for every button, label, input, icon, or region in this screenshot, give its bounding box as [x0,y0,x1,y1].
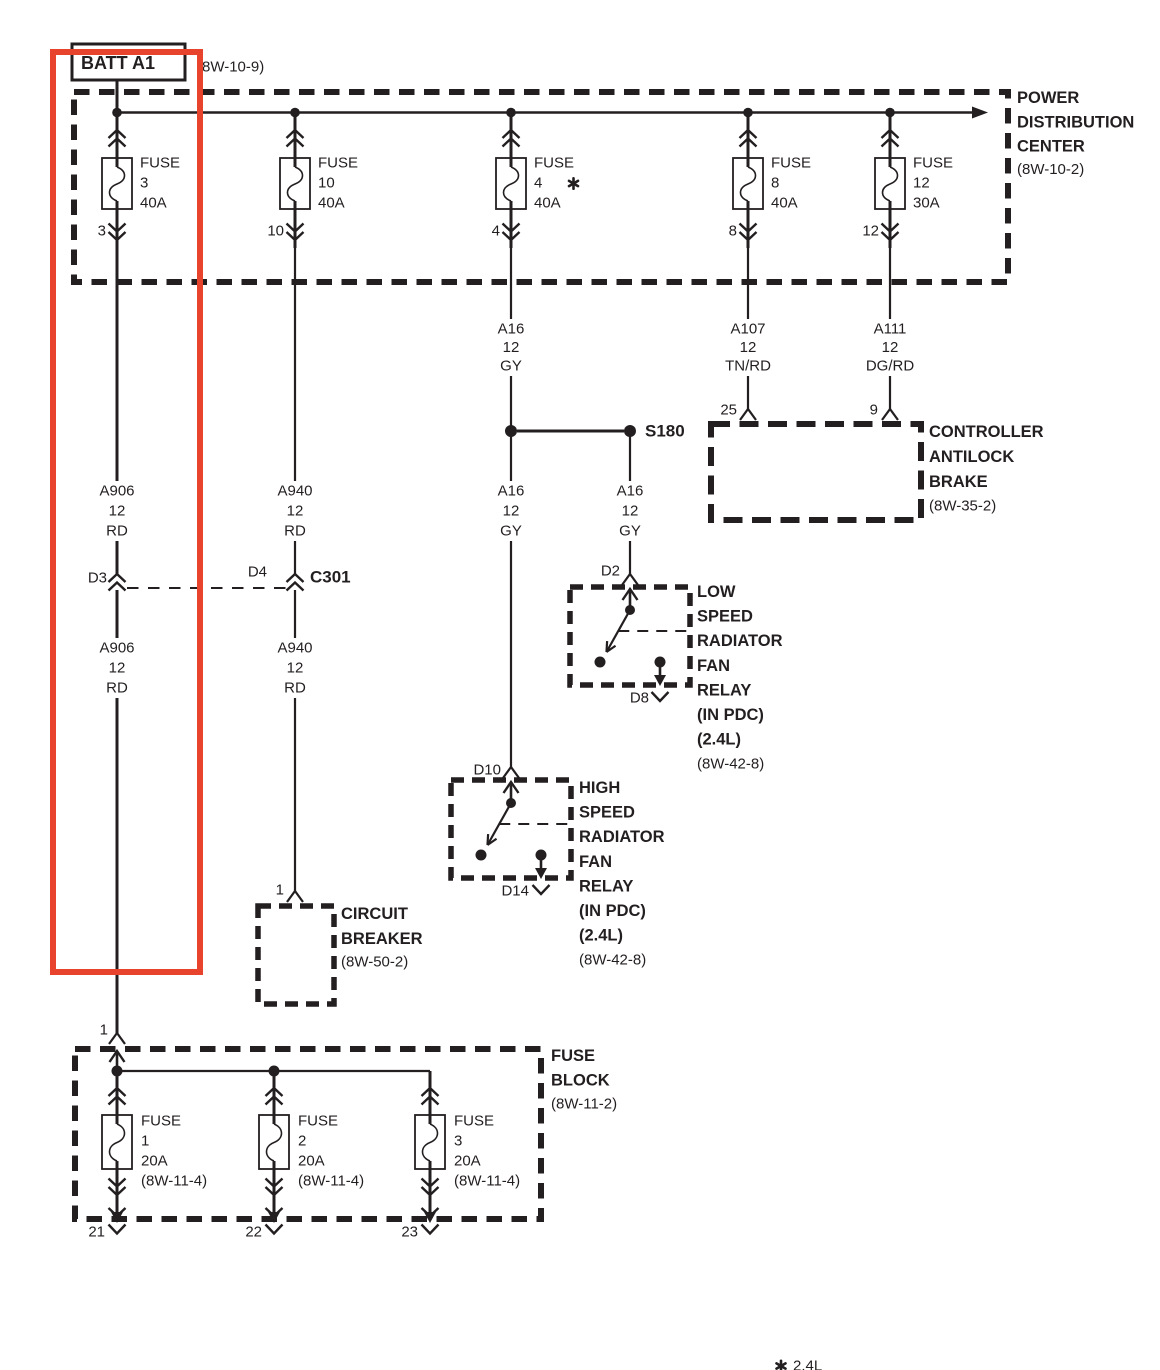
svg-text:RD: RD [284,680,306,697]
svg-text:FUSE: FUSE [141,1113,181,1130]
svg-text:(IN PDC): (IN PDC) [579,902,646,920]
svg-text:4: 4 [534,175,542,192]
svg-text:3: 3 [140,175,148,192]
svg-text:D14: D14 [501,883,529,900]
svg-text:LOW: LOW [697,583,736,601]
svg-text:(8W-10-9): (8W-10-9) [197,59,264,76]
svg-text:A940: A940 [277,483,312,500]
svg-text:12: 12 [740,339,757,356]
svg-text:DISTRIBUTION: DISTRIBUTION [1017,114,1134,132]
svg-text:FAN: FAN [579,853,612,871]
svg-text:(2.4L): (2.4L) [579,927,623,945]
svg-text:RELAY: RELAY [697,681,751,699]
svg-text:HIGH: HIGH [579,779,620,797]
svg-text:(8W-11-4): (8W-11-4) [454,1173,520,1190]
svg-text:12: 12 [862,223,879,240]
svg-text:(8W-10-2): (8W-10-2) [1017,161,1084,178]
svg-text:(2.4L): (2.4L) [697,731,741,749]
svg-text:FAN: FAN [697,657,730,675]
svg-text:8: 8 [771,175,779,192]
svg-text:3: 3 [454,1133,462,1150]
svg-text:(8W-42-8): (8W-42-8) [697,756,764,773]
svg-text:CIRCUIT: CIRCUIT [341,905,408,923]
svg-text:30A: 30A [913,195,940,212]
svg-text:BREAKER: BREAKER [341,930,423,948]
svg-text:8: 8 [729,223,737,240]
svg-text:FUSE: FUSE [913,155,953,172]
svg-text:SPEED: SPEED [697,608,753,626]
svg-text:12: 12 [287,503,304,520]
svg-text:(8W-11-4): (8W-11-4) [141,1173,207,1190]
svg-text:GY: GY [500,523,522,540]
svg-text:12: 12 [622,503,639,520]
svg-text:CONTROLLER: CONTROLLER [929,423,1044,441]
svg-text:FUSE: FUSE [454,1113,494,1130]
svg-text:(8W-11-4): (8W-11-4) [298,1173,364,1190]
svg-text:GY: GY [619,523,641,540]
svg-text:BLOCK: BLOCK [551,1072,610,1090]
svg-text:D8: D8 [630,690,649,707]
svg-text:1: 1 [100,1022,108,1039]
svg-text:9: 9 [870,402,878,419]
svg-text:ANTILOCK: ANTILOCK [929,448,1014,466]
svg-text:FUSE: FUSE [534,155,574,172]
svg-text:22: 22 [245,1224,262,1241]
svg-text:D10: D10 [473,762,501,779]
svg-text:FUSE: FUSE [298,1113,338,1130]
svg-text:RD: RD [106,680,128,697]
svg-text:20A: 20A [298,1153,325,1170]
svg-text:2: 2 [298,1133,306,1150]
svg-text:RADIATOR: RADIATOR [697,632,783,650]
svg-text:(8W-50-2): (8W-50-2) [341,954,408,971]
svg-text:40A: 40A [318,195,345,212]
svg-text:C301: C301 [310,568,351,587]
svg-text:(8W-11-2): (8W-11-2) [551,1096,617,1113]
svg-text:4: 4 [492,223,500,240]
svg-text:FUSE: FUSE [140,155,180,172]
svg-text:D2: D2 [601,563,620,580]
svg-text:A16: A16 [498,321,525,338]
svg-text:TN/RD: TN/RD [725,358,771,375]
svg-text:23: 23 [401,1224,418,1241]
svg-text:FUSE: FUSE [771,155,811,172]
svg-text:A906: A906 [99,640,134,657]
svg-text:A906: A906 [99,483,134,500]
svg-text:40A: 40A [534,195,561,212]
svg-text:20A: 20A [141,1153,168,1170]
svg-text:10: 10 [318,175,335,192]
svg-text:12: 12 [503,503,520,520]
svg-text:12: 12 [913,175,930,192]
svg-text:(IN PDC): (IN PDC) [697,706,764,724]
svg-text:BRAKE: BRAKE [929,473,988,491]
svg-text:CENTER: CENTER [1017,138,1085,156]
svg-text:2.4L: 2.4L [793,1358,822,1370]
svg-text:SPEED: SPEED [579,804,635,822]
svg-text:40A: 40A [771,195,798,212]
svg-text:A16: A16 [498,483,525,500]
svg-text:A111: A111 [874,321,907,338]
svg-text:FUSE: FUSE [318,155,358,172]
svg-text:12: 12 [503,339,520,356]
svg-text:(8W-35-2): (8W-35-2) [929,498,996,515]
svg-text:3: 3 [98,223,106,240]
svg-text:RD: RD [284,523,306,540]
svg-text:D3: D3 [88,570,107,587]
svg-text:1: 1 [141,1133,149,1150]
svg-text:POWER: POWER [1017,89,1079,107]
svg-text:RELAY: RELAY [579,877,633,895]
svg-text:FUSE: FUSE [551,1047,595,1065]
svg-text:(8W-42-8): (8W-42-8) [579,952,646,969]
svg-text:1: 1 [276,882,284,899]
svg-text:A940: A940 [277,640,312,657]
svg-text:DG/RD: DG/RD [866,358,915,375]
svg-text:S180: S180 [645,422,685,441]
svg-text:BATT A1: BATT A1 [81,53,155,73]
svg-text:12: 12 [109,503,126,520]
svg-text:40A: 40A [140,195,167,212]
svg-text:12: 12 [882,339,899,356]
svg-text:A16: A16 [617,483,644,500]
svg-text:10: 10 [267,223,284,240]
svg-text:25: 25 [720,402,737,419]
svg-text:RD: RD [106,523,128,540]
svg-text:21: 21 [88,1224,105,1241]
svg-text:GY: GY [500,358,522,375]
svg-text:20A: 20A [454,1153,481,1170]
svg-text:12: 12 [109,660,126,677]
svg-text:12: 12 [287,660,304,677]
svg-text:RADIATOR: RADIATOR [579,828,665,846]
svg-text:D4: D4 [248,564,267,581]
svg-text:A107: A107 [730,321,765,338]
